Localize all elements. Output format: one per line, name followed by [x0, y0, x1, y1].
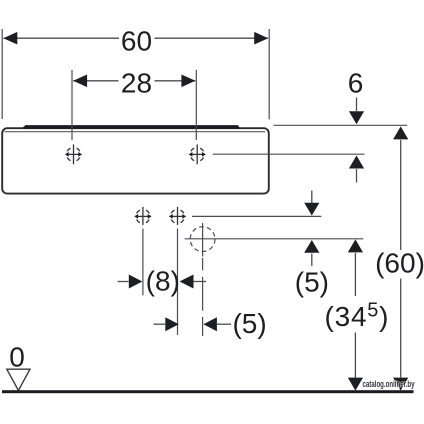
svg-text:6: 6 — [348, 67, 364, 98]
dim 60: left extension line — [1, 29, 3, 119]
dim 28: right extension line — [195, 70, 197, 140]
dim 60: right arrowhead — [254, 32, 268, 45]
dim (5) bottom: left arrow (right-pointing) — [154, 323, 166, 325]
dim 6: upper arrow (down) — [356, 98, 358, 112]
washbasin inner rim line — [5, 131, 266, 133]
dim 28: right arrowhead — [181, 75, 195, 88]
accessory hole left extension down — [142, 229, 144, 296]
dim (8): left arrow (right-pointing) — [118, 281, 129, 283]
svg-text:(60): (60) — [375, 248, 424, 279]
svg-text:60: 60 — [121, 26, 152, 57]
dim 6: lower arrow (up) — [349, 156, 364, 169]
dim 28: left extension line — [71, 70, 73, 140]
watermark — [363, 379, 415, 389]
tap hole right (crosshair) — [189, 144, 206, 164]
dim 60: right extension line — [268, 29, 270, 119]
datum triangle — [7, 369, 30, 390]
washbasin body outline — [2, 128, 269, 193]
dim 60: left arrowhead — [3, 32, 17, 45]
washbasin rim (dark top bar) — [22, 125, 241, 129]
extension line from tap holes to right — [213, 153, 365, 155]
dim 60: dimension line — [4, 37, 120, 39]
floor line — [2, 390, 414, 393]
extension line from rim top to right — [274, 124, 408, 126]
svg-text:(5): (5) — [232, 308, 266, 339]
dim (5) right: lower arrow (up) — [304, 240, 319, 253]
svg-text:28: 28 — [121, 68, 152, 99]
accessory hole line to right — [192, 215, 321, 217]
dim (34^5): top arrow (up) — [348, 239, 363, 252]
svg-text:(345): (345) — [325, 300, 389, 333]
dim (34^5): lower segment + bottom arrow (down) — [354, 333, 356, 378]
dim 28: left arrowhead — [73, 75, 87, 88]
tap hole left (crosshair) — [65, 144, 82, 164]
svg-text:(8): (8) — [146, 266, 180, 297]
dim (5) right: upper arrow (down) — [311, 191, 313, 204]
drain hole (dashed circle with cross) — [190, 227, 215, 252]
svg-text:0: 0 — [9, 342, 25, 373]
drain line to right — [185, 238, 364, 240]
accessory hole right (crosshair) — [169, 207, 186, 225]
dim (8): right arrow (left-pointing) — [180, 275, 194, 289]
accessory hole right extension down — [177, 229, 179, 336]
dim (5) bottom: right arrow (left-pointing) — [203, 317, 217, 331]
svg-text:(5): (5) — [295, 267, 329, 298]
dim 28: dimension line — [73, 80, 118, 82]
svg-text:catalog.onliner.by: catalog.onliner.by — [363, 379, 415, 389]
drain centerline down (dashed) — [202, 258, 204, 270]
accessory hole left (crosshair) — [134, 207, 151, 225]
dim (60): top arrow (up) — [393, 126, 408, 139]
dim (60): lower segment + bottom arrow (down) — [400, 279, 402, 378]
